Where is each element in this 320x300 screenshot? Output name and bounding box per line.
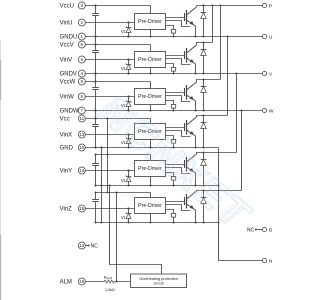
- pin 6 VccV terminal: [60, 41, 86, 48]
- wire emitter of Q6 to output row: [194, 210, 196, 224]
- wire V output row (GNDV): [86, 73, 263, 75]
- pin 10 GND terminal: [60, 144, 86, 151]
- svg-text:ALM: ALM: [60, 279, 72, 285]
- svg-text:11: 11: [79, 116, 84, 121]
- wire N bus: [217, 148, 262, 261]
- svg-text:U: U: [269, 34, 273, 40]
- zener diode Vz1: [121, 21, 131, 37]
- svg-text:10: 10: [79, 145, 85, 150]
- svg-text:VccV: VccV: [60, 42, 74, 48]
- wire collector Q6 jog: [197, 190, 242, 193]
- wire emitter of Q1 to output row: [194, 26, 196, 38]
- zener diode Vz4: [121, 133, 131, 148]
- transistor Q5 IGBT: [185, 154, 197, 173]
- wire Vcc stub into U1: [150, 6, 152, 14]
- svg-text:Pre-Driver: Pre-Driver: [138, 203, 162, 209]
- pin 12 NC annotation: [86, 243, 99, 249]
- svg-text:13: 13: [79, 132, 85, 137]
- scan edge artifacts: [0, 40, 1, 300]
- wire GND row stage6: [96, 222, 219, 224]
- wire emitter return U3: [166, 96, 191, 102]
- svg-text:GND: GND: [60, 145, 74, 151]
- wire gate drive U4: [166, 127, 185, 129]
- svg-text:NC: NC: [91, 243, 99, 249]
- wire collector Q1 to P rail: [196, 6, 198, 8]
- wire VinX row: [86, 134, 135, 136]
- zener diode Vz2: [121, 58, 131, 74]
- wire Vcc feed stage5: [96, 154, 151, 156]
- wire VccW row: [86, 81, 151, 83]
- pin 7 GNDW terminal: [60, 107, 86, 114]
- svg-text:14: 14: [79, 168, 85, 173]
- wire GND stub from U3: [149, 105, 151, 112]
- svg-text:GNDV: GNDV: [60, 71, 77, 77]
- wire W output row (GNDW): [86, 110, 263, 112]
- svg-text:15: 15: [79, 206, 85, 211]
- wire VinW row: [86, 96, 135, 98]
- transistor Q2 IGBT: [185, 45, 197, 64]
- zener diode Vz3: [121, 95, 131, 111]
- svg-text:Vz: Vz: [121, 66, 126, 71]
- pin 12 NC terminal: [78, 242, 85, 249]
- transistor Q3 IGBT: [185, 82, 197, 101]
- wire GND stub from U5: [149, 177, 151, 187]
- wire ALM input: [86, 281, 105, 283]
- diode D6 freewheel: [201, 189, 207, 223]
- wire VinU row: [86, 22, 135, 24]
- wire VccV row: [86, 44, 151, 46]
- svg-text:Overheating protection: Overheating protection: [139, 277, 178, 281]
- capacitor C2 (VccV-GNDV): [92, 43, 99, 74]
- diode D2 freewheel: [201, 41, 207, 74]
- pin 5 VinV terminal: [60, 56, 86, 63]
- svg-text:NC: NC: [247, 227, 255, 233]
- svg-text:GNDW: GNDW: [60, 108, 79, 114]
- terminal P: [262, 3, 272, 9]
- wire bus P to Q2 collector: [211, 4, 213, 42]
- svg-text:16: 16: [79, 279, 85, 284]
- svg-text:VccW: VccW: [60, 79, 76, 85]
- wire GND stub from U6: [149, 214, 151, 224]
- svg-text:12: 12: [79, 243, 85, 248]
- pin 1 GNDU terminal: [60, 33, 86, 40]
- pin 16 ALM terminal: [60, 278, 86, 285]
- wire emitter of Q4 to output row: [194, 136, 196, 149]
- diode D5 freewheel: [201, 151, 207, 186]
- svg-text:Pre-Driver: Pre-Driver: [138, 19, 162, 25]
- diode D1 freewheel: [201, 4, 207, 37]
- wire GND row stage5: [96, 185, 219, 187]
- wire fault link to protection circuit: [108, 184, 161, 274]
- svg-text:1.5kΩ: 1.5kΩ: [105, 288, 115, 292]
- capacitor C5: [92, 153, 99, 186]
- wire Vcc bus (low side): [106, 117, 108, 193]
- svg-text:Pre-Driver: Pre-Driver: [138, 57, 162, 63]
- watermark: [90, 86, 260, 240]
- capacitor C4 (Vcc-GND): [92, 117, 99, 148]
- wire P rail: [197, 5, 263, 7]
- capacitor C3 (VccW-GNDW): [92, 80, 99, 111]
- pin 15 VinZ terminal: [60, 205, 86, 212]
- wire Vcc stub into U3: [150, 82, 152, 89]
- wire gate drive U6: [166, 201, 185, 203]
- pin 4 GNDV terminal: [60, 70, 86, 77]
- pin 11 Vcc terminal: [60, 115, 86, 122]
- junction dots: [94, 4, 204, 209]
- transistor Q4 IGBT: [185, 117, 197, 136]
- op-amp U3 Pre-Driver box: [135, 89, 166, 105]
- svg-text:ALM: ALM: [106, 276, 112, 280]
- pin 9 VccW terminal: [60, 78, 86, 85]
- wire GND row: [86, 147, 219, 149]
- wire Vcc feed stage6: [96, 192, 151, 194]
- wire Vcc stub into U2: [150, 45, 152, 52]
- svg-text:VinV: VinV: [60, 57, 73, 63]
- wire emitter of Q2 to output row: [194, 64, 196, 75]
- sense element S2: [166, 64, 176, 75]
- svg-text:Vz: Vz: [121, 178, 126, 183]
- svg-text:N: N: [269, 258, 273, 264]
- svg-text:VinZ: VinZ: [60, 206, 73, 212]
- wire ALM link: [115, 191, 117, 281]
- terminal W: [262, 108, 274, 114]
- wire GND bus (low side): [100, 146, 102, 223]
- svg-text:W: W: [269, 108, 274, 114]
- wire collector Q3 jog: [197, 80, 221, 83]
- resistor RALM 1.5k: [104, 274, 115, 292]
- capacitor C6: [92, 191, 99, 223]
- overheating protection circuit block: [131, 274, 187, 288]
- pin 14 VinY terminal: [60, 167, 86, 174]
- svg-text:VinY: VinY: [60, 168, 73, 174]
- wire gate drive U3: [166, 92, 185, 94]
- wire link GNDU-VccV: [95, 37, 97, 45]
- terminal V: [262, 71, 273, 77]
- terminal N: [262, 258, 273, 264]
- wire Vcc row: [86, 118, 151, 120]
- wire emitter return U2: [166, 59, 191, 65]
- diode D3 freewheel: [201, 78, 207, 111]
- svg-text:VinX: VinX: [60, 132, 73, 138]
- wire link GNDV-VccW: [95, 74, 97, 82]
- wire bus V to Q5 collector: [235, 72, 237, 152]
- svg-text:P: P: [269, 3, 272, 9]
- wire bus U to Q4 collector: [226, 35, 228, 115]
- wire emitter return U4: [166, 131, 191, 137]
- wire gate drive U2: [166, 55, 185, 57]
- svg-text:circuit: circuit: [153, 282, 164, 286]
- wire collector Q2 jog: [197, 43, 213, 46]
- wire gate drive U5: [166, 164, 185, 166]
- wire VinZ row: [86, 208, 135, 210]
- wire link GNDW-Vcc: [95, 111, 97, 119]
- wire VinV row: [86, 59, 135, 61]
- sense element S3: [166, 101, 176, 112]
- op-amp U1 Pre-Driver box: [135, 14, 166, 30]
- wire emitter of Q3 to output row: [194, 101, 196, 112]
- op-amp U4 Pre-Driver box: [135, 124, 166, 140]
- op-amp U6 Pre-Driver box: [135, 198, 166, 214]
- pin 2 VinU terminal: [60, 19, 86, 26]
- wire emitter return U6: [166, 205, 191, 211]
- svg-text:Vcc: Vcc: [60, 116, 70, 122]
- wire GND stub from U1: [149, 30, 151, 38]
- op-amp U5 Pre-Driver box: [135, 161, 166, 177]
- wire bus P to Q3 collector: [219, 4, 221, 79]
- terminal U: [262, 34, 273, 40]
- diode D4 freewheel: [201, 114, 207, 148]
- terminal B: [262, 227, 272, 233]
- wire collector Q4 jog: [197, 116, 228, 118]
- transistor Q6 IGBT: [185, 191, 197, 210]
- svg-text:Vz: Vz: [121, 29, 126, 34]
- svg-text:VinU: VinU: [60, 20, 73, 26]
- transistor Q1 IGBT: [185, 7, 197, 26]
- wire Vcc stub into U6: [150, 193, 152, 198]
- sense element S4: [166, 136, 176, 149]
- svg-text:Vz: Vz: [121, 215, 126, 220]
- svg-text:VccU: VccU: [60, 3, 74, 9]
- svg-text:GNDU: GNDU: [60, 34, 78, 40]
- wire VinY row: [86, 170, 135, 172]
- pin 8 VinW terminal: [60, 93, 86, 100]
- wire GND stub from U2: [149, 68, 151, 75]
- wire GND stub from U4: [149, 140, 151, 149]
- svg-text:B: B: [269, 227, 272, 233]
- wire Vcc stub into U4: [150, 119, 152, 124]
- pin 13 VinX terminal: [60, 131, 86, 138]
- wire gate drive U1: [166, 17, 185, 19]
- wire U output row (GNDU): [86, 36, 263, 38]
- wire emitter return U5: [166, 168, 191, 174]
- sense element S1: [166, 26, 176, 38]
- wire bus W to Q6 collector: [240, 109, 242, 190]
- zener diode Vz6: [121, 207, 131, 223]
- wire emitter return U1: [166, 21, 191, 27]
- svg-text:VinW: VinW: [60, 94, 75, 100]
- sense element S6: [166, 210, 176, 224]
- NC annotation at terminal B: [247, 227, 262, 233]
- zener diode Vz5: [121, 169, 131, 186]
- capacitor C1 (VccU-GNDU): [92, 4, 99, 37]
- wire emitter of Q5 to output row: [194, 173, 196, 187]
- svg-text:Pre-Driver: Pre-Driver: [138, 94, 162, 100]
- wire VccU row: [86, 5, 151, 7]
- op-amp U2 Pre-Driver box: [135, 52, 166, 68]
- sense element S5: [166, 173, 176, 187]
- wire collector Q5 jog: [197, 153, 237, 155]
- wire Vcc stub into U5: [150, 155, 152, 161]
- wire ALM to protection box: [114, 280, 130, 282]
- pin 3 VccU terminal: [60, 2, 86, 9]
